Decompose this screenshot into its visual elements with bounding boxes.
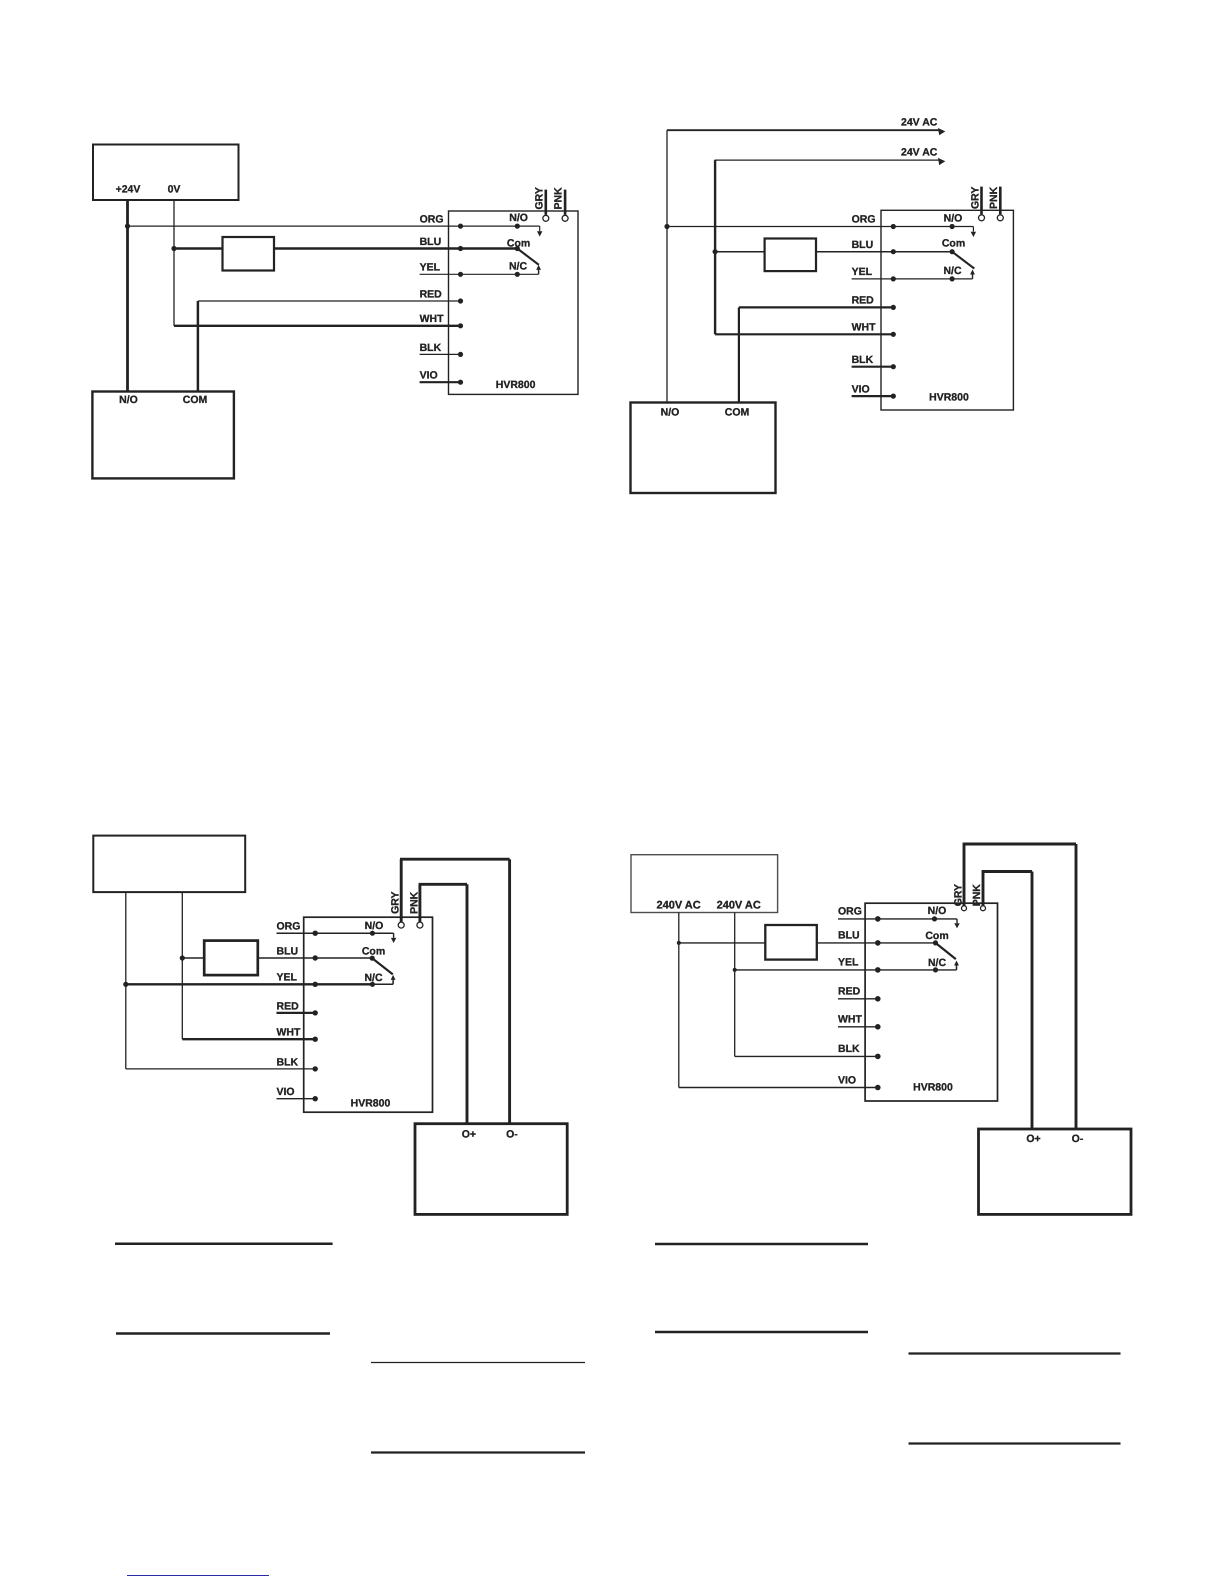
svg-text:BLU: BLU	[277, 945, 299, 957]
svg-text:Com: Com	[925, 930, 948, 942]
svg-text:RED: RED	[420, 288, 443, 300]
svg-text:BLK: BLK	[838, 1043, 860, 1055]
svg-text:PNK: PNK	[553, 187, 565, 210]
svg-text:VIO: VIO	[852, 383, 870, 395]
svg-text:GRY: GRY	[390, 892, 402, 914]
svg-text:Com: Com	[362, 946, 385, 958]
svg-text:RED: RED	[277, 1000, 300, 1012]
svg-text:BLU: BLU	[420, 236, 442, 248]
svg-text:N/O: N/O	[944, 212, 963, 224]
svg-text:N/C: N/C	[364, 972, 383, 984]
svg-text:N/O: N/O	[928, 905, 947, 917]
svg-text:BLU: BLU	[838, 930, 860, 942]
svg-text:240V AC: 240V AC	[717, 899, 761, 911]
svg-text:N/O: N/O	[365, 920, 384, 932]
svg-text:WHT: WHT	[838, 1014, 862, 1026]
svg-text:Com: Com	[942, 238, 965, 250]
svg-text:YEL: YEL	[277, 972, 298, 984]
svg-text:0V: 0V	[168, 184, 181, 196]
svg-text:O-: O-	[506, 1128, 518, 1140]
svg-text:N/O: N/O	[509, 212, 528, 224]
svg-text:N/C: N/C	[943, 265, 962, 277]
svg-text:COM: COM	[725, 407, 750, 419]
svg-text:O+: O+	[1026, 1133, 1040, 1145]
svg-text:GRY: GRY	[952, 884, 964, 906]
svg-text:ORG: ORG	[852, 214, 876, 226]
svg-text:PNK: PNK	[408, 891, 420, 914]
svg-text:24V AC: 24V AC	[901, 147, 938, 159]
svg-text:PNK: PNK	[971, 884, 983, 907]
svg-text:BLK: BLK	[852, 354, 874, 366]
svg-text:ORG: ORG	[277, 921, 301, 933]
svg-text:GRY: GRY	[533, 187, 545, 209]
svg-text:O+: O+	[462, 1128, 476, 1140]
svg-text:HVR800: HVR800	[351, 1097, 391, 1109]
svg-text:YEL: YEL	[838, 957, 859, 969]
svg-text:BLU: BLU	[852, 239, 874, 251]
svg-text:WHT: WHT	[277, 1027, 301, 1039]
svg-text:N/O: N/O	[661, 407, 680, 419]
svg-text:O-: O-	[1072, 1133, 1084, 1145]
svg-text:PNK: PNK	[988, 186, 1000, 209]
svg-text:WHT: WHT	[852, 322, 876, 334]
svg-text:BLK: BLK	[420, 342, 442, 354]
svg-text:WHT: WHT	[420, 313, 444, 325]
svg-text:BLK: BLK	[277, 1056, 299, 1068]
svg-text:VIO: VIO	[838, 1074, 856, 1086]
svg-text:VIO: VIO	[420, 370, 438, 382]
svg-text:HVR800: HVR800	[929, 391, 969, 403]
svg-text:Com: Com	[507, 237, 530, 249]
svg-text:GRY: GRY	[969, 187, 981, 209]
svg-text:YEL: YEL	[420, 262, 441, 274]
svg-text:YEL: YEL	[852, 266, 873, 278]
svg-text:N/C: N/C	[928, 957, 947, 969]
svg-text:VIO: VIO	[277, 1086, 295, 1098]
svg-text:N/C: N/C	[509, 261, 528, 273]
svg-text:+24V: +24V	[116, 184, 141, 196]
svg-text:HVR800: HVR800	[913, 1081, 953, 1093]
svg-text:24V AC: 24V AC	[901, 117, 938, 129]
svg-text:COM: COM	[183, 394, 208, 406]
svg-text:RED: RED	[838, 986, 861, 998]
svg-text:N/O: N/O	[119, 394, 138, 406]
svg-text:ORG: ORG	[838, 906, 862, 918]
svg-text:ORG: ORG	[420, 214, 444, 226]
svg-text:RED: RED	[852, 295, 875, 307]
svg-text:HVR800: HVR800	[496, 379, 536, 391]
svg-text:240V AC: 240V AC	[656, 899, 700, 911]
